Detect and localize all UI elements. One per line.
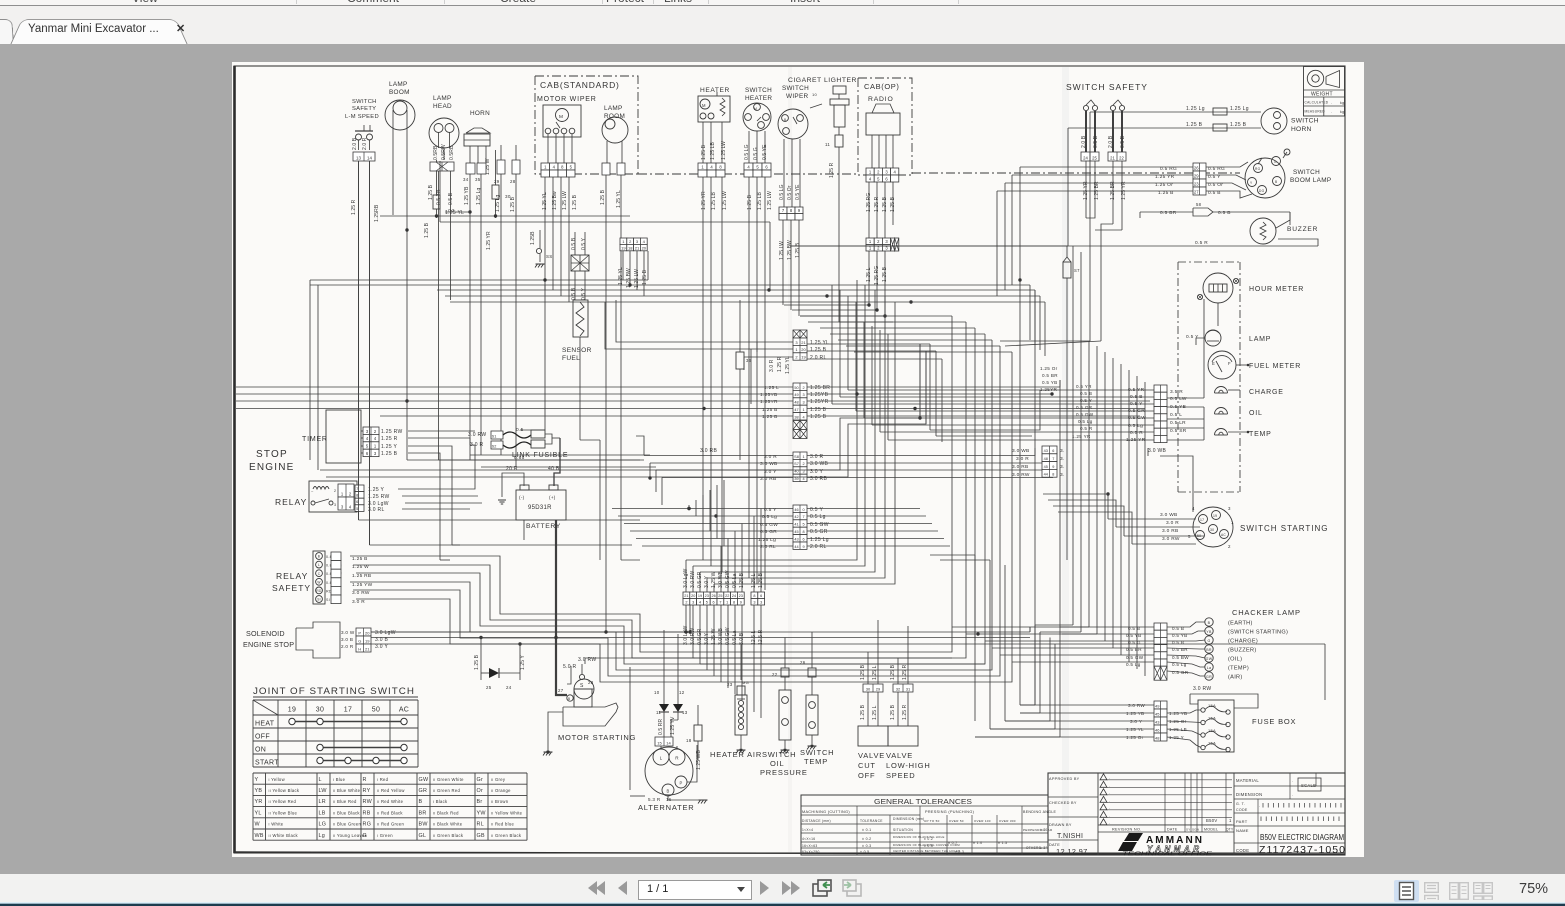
svg-text:25: 25 — [1092, 155, 1097, 160]
svg-text:0.5 L: 0.5 L — [1170, 412, 1182, 418]
svg-text:2.0 RL: 2.0 RL — [810, 544, 827, 550]
fuse box feed wires — [1035, 704, 1154, 706]
svg-text:29: 29 — [494, 179, 500, 184]
svg-text:ON: ON — [255, 747, 266, 754]
svg-text:JOINT OF STARTING SWITCH: JOINT OF STARTING SWITCH — [253, 686, 415, 697]
svg-text:1.25 YV: 1.25 YV — [670, 716, 676, 735]
svg-text:17: 17 — [344, 707, 352, 714]
svg-text:19: 19 — [621, 245, 626, 250]
svg-text:3.0 R: 3.0 R — [1166, 520, 1179, 526]
svg-text:CENTER DISTANCE BETWEEN THE HO: CENTER DISTANCE BETWEEN THE HOLES — [893, 849, 960, 853]
svg-text:CAB(STANDARD): CAB(STANDARD) — [540, 80, 620, 90]
misc junctions — [855, 392, 858, 395]
svg-text:24: 24 — [506, 685, 512, 690]
svg-text:SY: SY — [1186, 828, 1191, 832]
first page button — [588, 881, 597, 895]
motor wiper connector — [541, 163, 550, 170]
svg-text:4: 4 — [802, 477, 804, 481]
svg-text:21: 21 — [1110, 155, 1115, 160]
svg-text:23: 23 — [705, 594, 709, 598]
svg-text:3.0 RW: 3.0 RW — [1128, 703, 1145, 708]
svg-text:5: 5 — [1188, 534, 1191, 539]
svg-text:0.5RW: 0.5RW — [441, 144, 447, 160]
svg-text:0.5 LG: 0.5 LG — [779, 184, 785, 200]
svg-text:QTY: QTY — [1226, 828, 1234, 832]
svg-text:.: . — [1331, 109, 1332, 114]
svg-text:RY: RY — [363, 788, 371, 794]
svg-text:C: C — [318, 572, 321, 576]
motor wiper — [543, 105, 581, 137]
svg-text:Y: Y — [1250, 181, 1253, 185]
svg-text:YB: YB — [1206, 630, 1212, 634]
svg-text:12: 12 — [679, 690, 685, 695]
svg-text:0.5 Y: 0.5 Y — [810, 507, 823, 513]
svg-text:F: F — [1228, 361, 1231, 366]
svg-text:12.12.97: 12.12.97 — [1056, 847, 1088, 856]
svg-text:YR: YR — [255, 799, 263, 805]
svg-text:0.5 B: 0.5 B — [571, 237, 577, 250]
svg-text:FUSE BOX: FUSE BOX — [1252, 717, 1296, 726]
svg-text:SWITCH: SWITCH — [1291, 118, 1319, 125]
svg-text:3.: 3. — [1060, 456, 1065, 462]
alternator — [645, 747, 693, 795]
svg-text:1: 1 — [1231, 520, 1234, 525]
svg-text:1.25 R: 1.25 R — [829, 162, 835, 178]
svg-text:CODE: CODE — [1236, 808, 1248, 812]
svg-text:DG: DG — [1259, 189, 1265, 193]
svg-text:2: 2 — [802, 462, 804, 466]
svg-text:1.25 B: 1.25 B — [424, 222, 430, 238]
battery main lead — [556, 520, 567, 695]
svg-text:1.25 YR: 1.25 YR — [486, 231, 492, 250]
facing pages layout — [1449, 882, 1469, 900]
svg-text:1.25 RB: 1.25 RB — [352, 573, 371, 579]
connector grid center-top — [620, 238, 627, 244]
wire switch-wiper bundle down — [784, 304, 869, 306]
svg-text:I White: I White — [269, 822, 284, 827]
svg-text:1.25 B: 1.25 B — [510, 196, 516, 212]
svg-text:3.0 Y: 3.0 Y — [375, 644, 388, 650]
svg-text:1.25 B: 1.25 B — [352, 556, 368, 562]
svg-text:16: 16 — [666, 797, 672, 802]
svg-text:BUZZER: BUZZER — [1287, 226, 1318, 233]
svg-text:II Red Green: II Red Green — [377, 822, 405, 827]
svg-text:MOTOR WIPER: MOTOR WIPER — [537, 96, 597, 103]
switch safety wires down — [1085, 161, 1087, 218]
svg-text:38: 38 — [794, 415, 798, 419]
svg-text:6: 6 — [1052, 449, 1054, 453]
charge lamp — [1215, 387, 1228, 394]
svg-text:6: 6 — [760, 594, 762, 598]
svg-text:3.0 RW: 3.0 RW — [468, 432, 486, 438]
svg-text:2.0 B: 2.0 B — [352, 137, 358, 150]
svg-text:5: 5 — [802, 523, 804, 527]
svg-text:1.25 Or: 1.25 Or — [1126, 735, 1144, 740]
main connector verticals up — [685, 560, 687, 592]
svg-text:4: 4 — [699, 601, 701, 605]
svg-text:1.25 Lg: 1.25 Lg — [1230, 106, 1249, 112]
svg-text:23: 23 — [1194, 181, 1199, 186]
svg-text:SWITCH: SWITCH — [352, 99, 377, 105]
svg-text:HEATER AIR: HEATER AIR — [710, 750, 762, 759]
svg-text:0.5 LW: 0.5 LW — [1170, 396, 1187, 402]
connector col A wires — [616, 300, 793, 342]
CAB OP dashed box — [858, 78, 912, 175]
svg-text:24: 24 — [1083, 155, 1088, 160]
svg-text:1.25YR: 1.25YR — [760, 399, 778, 405]
svg-text:VALVE: VALVE — [858, 751, 885, 760]
svg-text:II White Black: II White Black — [269, 833, 299, 838]
svg-text:9: 9 — [802, 545, 804, 549]
svg-text:49: 49 — [1155, 703, 1160, 708]
connector col B — [793, 383, 807, 390]
svg-text:SWITCH: SWITCH — [762, 750, 796, 759]
svg-text:48: 48 — [1155, 735, 1160, 740]
svg-text:1.25 Lg: 1.25 Lg — [810, 537, 829, 543]
svg-text:MODEL: MODEL — [1204, 828, 1218, 832]
svg-text:SS: SS — [546, 254, 552, 259]
svg-text:3.0 WB: 3.0 WB — [810, 461, 829, 467]
svg-text:3.5 R: 3.5 R — [1170, 389, 1183, 395]
svg-text:20: 20 — [691, 594, 695, 598]
fuel meter — [1208, 351, 1236, 379]
svg-text:1.25 B: 1.25 B — [701, 144, 707, 160]
svg-text:26: 26 — [711, 594, 715, 598]
svg-text:28: 28 — [510, 179, 516, 184]
bus to col D — [612, 508, 793, 510]
main connector row — [683, 592, 690, 599]
svg-text:BR: BR — [1206, 648, 1212, 652]
svg-text:3: 3 — [802, 393, 804, 397]
connector lamp head — [430, 162, 454, 171]
svg-text:1.25 B: 1.25 B — [747, 194, 753, 210]
svg-text:1.25 WB: 1.25 WB — [696, 750, 702, 770]
svg-text:10: 10 — [812, 92, 818, 97]
svg-text:L-M SPEED: L-M SPEED — [345, 114, 379, 120]
svg-text:B: B — [568, 697, 570, 701]
radio speaker — [872, 104, 894, 113]
svg-text:2.0 B: 2.0 B — [1081, 135, 1087, 148]
svg-text:3.0 RB: 3.0 RB — [700, 448, 717, 454]
svg-text:31: 31 — [906, 686, 911, 691]
svg-text:DIMENSION (mm): DIMENSION (mm) — [893, 817, 925, 821]
svg-text:~: ~ — [311, 489, 314, 494]
application menu bar (clipped) — [0, 0, 1565, 6]
svg-text:1.25 B: 1.25 B — [1230, 122, 1247, 128]
svg-text:0.5 Y: 0.5 Y — [1080, 398, 1092, 403]
status bar — [0, 874, 1565, 902]
svg-text:1.25 B: 1.25 B — [810, 347, 827, 353]
switch heater — [743, 103, 771, 131]
svg-text:1.25 YL: 1.25 YL — [445, 210, 464, 216]
svg-text:0.5 B: 0.5 B — [1218, 210, 1231, 216]
svg-text:FUEL: FUEL — [562, 355, 580, 362]
svg-text:B50V: B50V — [1206, 818, 1217, 823]
sensor fuel drop — [579, 337, 581, 440]
svg-text:GL: GL — [419, 833, 427, 839]
svg-text:L: L — [660, 756, 663, 761]
svg-text:1.25 B: 1.25 B — [810, 414, 827, 420]
svg-text:1.25B: 1.25B — [530, 231, 536, 245]
svg-text:II Green Red: II Green Red — [433, 788, 461, 793]
svg-text:0.5 Lg: 0.5 Lg — [762, 514, 777, 520]
timer pins — [363, 427, 379, 434]
svg-text:26: 26 — [1194, 165, 1199, 170]
svg-text:1.25 YB: 1.25 YB — [1169, 711, 1187, 716]
connector 29 — [497, 160, 505, 174]
svg-text:3.0 W: 3.0 W — [341, 630, 355, 635]
hour meter — [1203, 273, 1233, 303]
svg-text:(TEMP): (TEMP) — [1228, 666, 1249, 672]
svg-text:H: H — [358, 646, 361, 651]
svg-text:APPROVED BY: APPROVED BY — [1049, 777, 1080, 781]
svg-text:4: 4 — [1192, 506, 1195, 511]
prev page button — [618, 881, 627, 895]
svg-text:0.5 G: 0.5 G — [753, 147, 759, 160]
wire left risers — [309, 280, 311, 460]
motor starting — [574, 679, 594, 699]
horn connectors — [466, 163, 475, 174]
svg-text:0.5 LG: 0.5 LG — [744, 144, 750, 160]
svg-text:0.5 Or: 0.5 Or — [787, 185, 793, 200]
bus y222 — [440, 221, 770, 223]
svg-text:CAB(OP): CAB(OP) — [864, 82, 899, 91]
lamp head — [429, 118, 459, 148]
svg-text:1.25 YR: 1.25 YR — [1072, 434, 1091, 439]
fuse S7 — [1063, 262, 1071, 278]
svg-text:SAFETY: SAFETY — [352, 106, 376, 112]
continuous layout — [1424, 882, 1439, 900]
svg-text:OVER 300: OVER 300 — [999, 819, 1016, 823]
svg-text:3.0 WB: 3.0 WB — [1012, 448, 1030, 454]
svg-text:RL: RL — [477, 822, 485, 828]
svg-text:CUT: CUT — [858, 761, 876, 770]
svg-text:II Black Red: II Black Red — [433, 810, 459, 815]
svg-text:0.5 Lg: 0.5 Lg — [810, 514, 826, 520]
svg-text:29: 29 — [876, 686, 881, 691]
connector col D — [793, 505, 807, 512]
svg-text:II Red blue: II Red blue — [491, 822, 514, 827]
cigaret lighter — [833, 86, 846, 94]
vertical bundle right — [1072, 246, 1074, 625]
switch oil pressure — [779, 690, 791, 740]
svg-text:SPEED: SPEED — [886, 771, 915, 780]
switch starting — [1193, 507, 1233, 547]
svg-text:± 0.3: ± 0.3 — [862, 844, 871, 848]
svg-text:HEATER: HEATER — [745, 95, 772, 102]
svg-text:AC: AC — [1221, 533, 1226, 537]
svg-text:TIMER: TIMER — [302, 436, 328, 443]
bottom long bus — [371, 631, 1030, 633]
svg-text:1.25 B: 1.25 B — [572, 194, 578, 210]
svg-text:14: 14 — [666, 740, 671, 745]
fuse 30 — [492, 185, 499, 199]
svg-text:MEASURED: MEASURED — [1305, 110, 1326, 114]
svg-text:30: 30 — [1210, 528, 1214, 532]
heater connector — [698, 163, 707, 170]
svg-text:I Green: I Green — [377, 833, 393, 838]
svg-text:(OIL): (OIL) — [1228, 657, 1242, 663]
svg-text:8: 8 — [733, 601, 735, 605]
svg-text:5.3 R: 5.3 R — [648, 797, 661, 802]
connector 28 — [512, 160, 520, 174]
switch safety L-H speed pushbutton — [363, 125, 365, 131]
svg-text:0.5 YB: 0.5 YB — [1170, 404, 1186, 410]
stair lower-left riser — [439, 545, 441, 560]
svg-text:.: . — [1109, 776, 1110, 780]
temp lamp — [1215, 429, 1228, 435]
svg-text:PRESSING (PUNCHING): PRESSING (PUNCHING) — [925, 810, 975, 814]
svg-text:B50V ELECTRIC DIAGRAM: B50V ELECTRIC DIAGRAM — [1260, 832, 1344, 842]
lamp boom — [385, 100, 415, 130]
svg-text:CHACKER LAMP: CHACKER LAMP — [1232, 608, 1301, 617]
svg-text:2.0 B: 2.0 B — [1108, 135, 1114, 148]
svg-text:LAMP: LAMP — [604, 105, 623, 112]
svg-text:3.0 R: 3.0 R — [810, 454, 824, 460]
vertical bundle center-right — [951, 316, 953, 627]
motor starting feed — [581, 664, 583, 674]
svg-text:S2: S2 — [492, 444, 497, 448]
svg-text:UP TO 50: UP TO 50 — [924, 819, 940, 823]
svg-text:3: 3 — [334, 503, 336, 507]
svg-text:0.5 YE: 0.5 YE — [795, 184, 801, 200]
svg-text:0.5 B: 0.5 B — [571, 287, 577, 300]
svg-text:0.5 B: 0.5 B — [1120, 135, 1126, 148]
svg-text:47: 47 — [794, 408, 798, 412]
svg-text:MG: MG — [742, 680, 749, 685]
svg-text:1: 1 — [1229, 818, 1232, 823]
svg-text:S7: S7 — [794, 462, 799, 466]
svg-text:1.25 B: 1.25 B — [762, 407, 778, 413]
svg-text:3.: 3. — [1060, 472, 1065, 478]
svg-text:DRAWN BY: DRAWN BY — [1049, 823, 1072, 827]
svg-text:GENERAL TOLERANCES: GENERAL TOLERANCES — [874, 797, 972, 806]
svg-text:3.0 WB: 3.0 WB — [760, 461, 778, 467]
switch boom lamp wires — [1020, 166, 1193, 168]
switch temp — [806, 695, 818, 735]
svg-text:3.0 RL: 3.0 RL — [368, 507, 385, 513]
svg-text:OIL: OIL — [1249, 410, 1263, 417]
svg-text:TEMP: TEMP — [804, 757, 828, 766]
svg-text:3.: 3. — [1060, 448, 1065, 454]
svg-text:19: 19 — [1213, 514, 1217, 518]
svg-text:1: 1 — [726, 601, 728, 605]
svg-text:RADIO: RADIO — [868, 96, 894, 103]
svg-text:8: 8 — [802, 530, 804, 534]
svg-text:0.5 GW: 0.5 GW — [760, 522, 778, 528]
instrument feed wires — [848, 389, 1154, 391]
svg-text:0.5 B: 0.5 B — [1093, 135, 1099, 148]
svg-text:0.5RB: 0.5RB — [449, 145, 455, 160]
svg-text:3.0 WB: 3.0 WB — [1160, 512, 1178, 518]
valve boxes — [858, 726, 888, 746]
svg-text:S7: S7 — [1074, 268, 1080, 273]
svg-text:45: 45 — [1044, 465, 1048, 469]
switch horn wires — [1180, 111, 1261, 113]
svg-text:27: 27 — [1194, 189, 1199, 194]
svg-text:PRESSURE: PRESSURE — [760, 768, 808, 777]
svg-text:1.25 LW: 1.25 LW — [562, 191, 568, 210]
svg-text:9: 9 — [1052, 465, 1054, 469]
svg-text:35: 35 — [475, 177, 481, 182]
svg-text:I Yellow: I Yellow — [269, 777, 286, 782]
svg-text:.: . — [1109, 821, 1110, 825]
wire color code table — [253, 772, 527, 774]
svg-text:1.25 YR: 1.25 YR — [701, 191, 707, 210]
svg-text:2.0 RL: 2.0 RL — [760, 544, 776, 550]
svg-text:HORN: HORN — [470, 110, 490, 117]
svg-text:SWITCH: SWITCH — [800, 748, 834, 757]
svg-text:20: 20 — [801, 347, 806, 352]
svg-text:0.5 YR: 0.5 YR — [1076, 384, 1092, 389]
svg-text:ENGINE: ENGINE — [249, 462, 295, 473]
svg-text:19: 19 — [288, 707, 296, 714]
left drop wires — [358, 161, 360, 520]
svg-text:42: 42 — [794, 515, 798, 519]
fuse G2 — [433, 195, 440, 209]
svg-text:1: 1 — [802, 408, 804, 412]
svg-text:II Blue Red: II Blue Red — [333, 799, 357, 804]
svg-text:0.5 Y: 0.5 Y — [581, 287, 587, 300]
oil lamp — [1215, 408, 1228, 414]
svg-text:15A: 15A — [1208, 728, 1216, 733]
svg-text:II Black White: II Black White — [433, 822, 463, 827]
buzzer — [1250, 218, 1276, 244]
svg-text:II Yellow Black: II Yellow Black — [269, 788, 300, 793]
svg-text:3: 3 — [802, 401, 804, 405]
relay pins — [355, 485, 364, 492]
svg-text:SWITCH: SWITCH — [782, 85, 809, 92]
svg-text:G. T.: G. T. — [1236, 802, 1245, 806]
svg-text:AC: AC — [399, 707, 409, 714]
chacker lamp connector — [1154, 623, 1167, 630]
svg-text:BW: BW — [419, 822, 429, 828]
bottom right long wire — [1324, 644, 1326, 700]
svg-text:ENGINE STOP: ENGINE STOP — [243, 640, 294, 649]
svg-text:Gr: Gr — [477, 777, 484, 783]
svg-text:II Yellow Red: II Yellow Red — [269, 799, 297, 804]
svg-text:3.0 RW: 3.0 RW — [352, 590, 370, 596]
svg-text:0.5 GR: 0.5 GR — [810, 529, 828, 535]
svg-text:1.25 Or: 1.25 Or — [1040, 366, 1058, 371]
svg-text:1.25 YL: 1.25 YL — [810, 340, 829, 346]
alternator connector — [655, 737, 673, 746]
svg-text:34: 34 — [463, 177, 469, 182]
svg-text:MATERIAL: MATERIAL — [1236, 778, 1259, 783]
svg-text:1.25 B: 1.25 B — [600, 189, 606, 205]
svg-text:7: 7 — [719, 601, 721, 605]
switch boom lamp — [1245, 158, 1285, 198]
svg-text:0.5 B: 0.5 B — [448, 192, 454, 205]
svg-text:3.0 R: 3.0 R — [1016, 456, 1029, 462]
svg-text:G: G — [1274, 160, 1277, 164]
node junctions upper-left — [468, 210, 471, 213]
svg-text:10: 10 — [654, 690, 660, 695]
meter frame lines — [1203, 330, 1205, 398]
svg-text:0.5 RR: 0.5 RR — [658, 719, 664, 735]
svg-text:TECHNICAL OFFICE: TECHNICAL OFFICE — [1122, 852, 1213, 858]
svg-text:44: 44 — [1044, 473, 1048, 477]
svg-text:19: 19 — [801, 355, 806, 360]
svg-text:1.25 YB: 1.25 YB — [1126, 711, 1144, 716]
svg-text:1.25 B: 1.25 B — [474, 654, 480, 670]
svg-text:RB: RB — [363, 810, 371, 816]
switch boom lamp connector — [1193, 163, 1206, 171]
svg-text:3.: 3. — [1060, 464, 1065, 470]
svg-text:3.0 RW: 3.0 RW — [1193, 686, 1211, 692]
svg-text:II Blue Green: II Blue Green — [333, 822, 362, 827]
svg-text:3: 3 — [753, 601, 755, 605]
